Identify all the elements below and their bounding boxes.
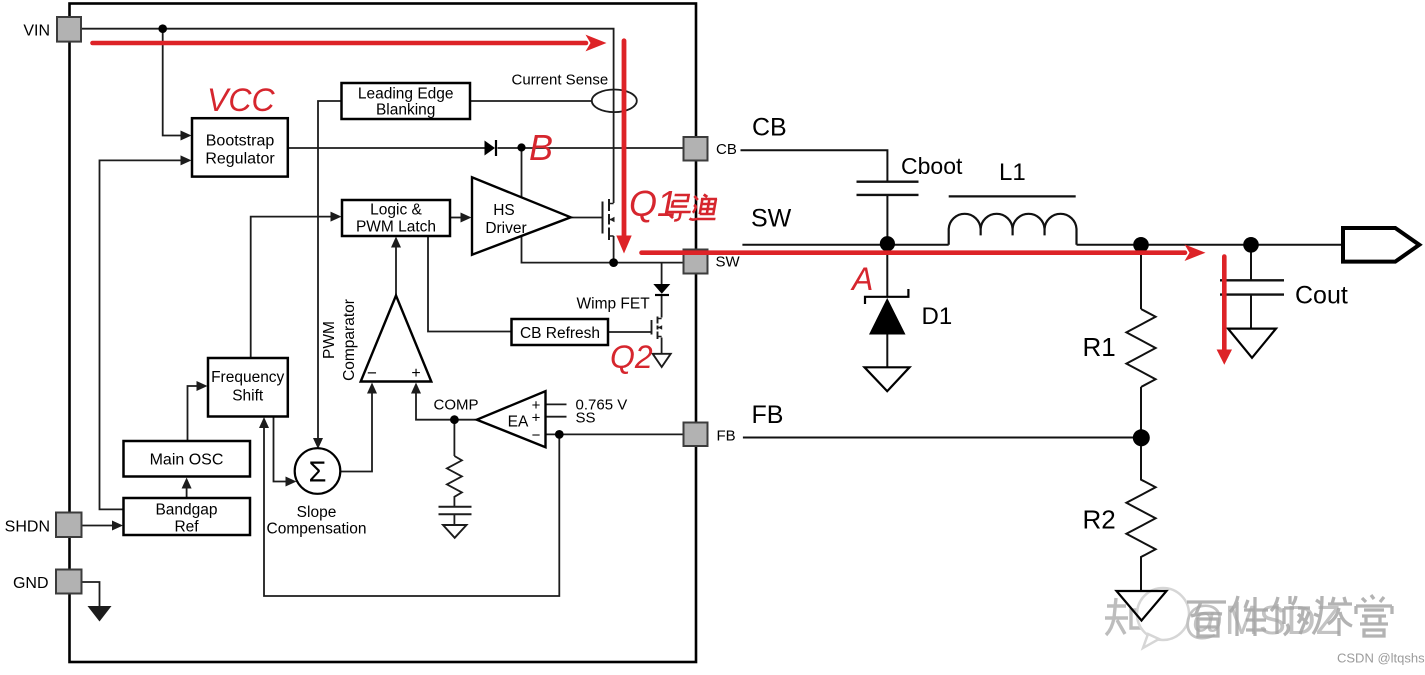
- svg-text:Logic &: Logic &: [370, 202, 422, 219]
- svg-text:Ref: Ref: [174, 519, 199, 536]
- svg-text:−: −: [367, 364, 377, 383]
- arrowhead into Bootstrap input 1: [181, 131, 192, 141]
- wire VCC net: Bandgap to Bootstrap Regulator input 2: [100, 160, 182, 509]
- resistor R2: [1126, 438, 1155, 591]
- svg-text:HS: HS: [493, 202, 515, 219]
- wire SW node down to D1: [886, 244, 888, 297]
- svg-text:R1: R1: [1083, 332, 1116, 362]
- pin SHDN: [56, 513, 82, 538]
- wire Leading Edge Blanking right to current sense ellipse: [470, 100, 592, 102]
- wire Sigma output to PWM Comparator inverting input: [340, 393, 372, 472]
- block Frequency Shift: [208, 358, 288, 417]
- wire PWM Comparator output to Logic PWM Latch: [395, 247, 397, 296]
- capacitor Cboot: [857, 182, 919, 195]
- wire FB pin to divider: [743, 437, 1141, 439]
- watermark glyph tang: [1356, 595, 1392, 636]
- svg-text:Regulator: Regulator: [205, 151, 275, 168]
- wire FB feedback to Frequency Shift bottom: [264, 428, 559, 597]
- svg-text:CB Refresh: CB Refresh: [520, 325, 600, 342]
- node junction VIN tap: [158, 24, 167, 33]
- annotation glyph dao of Q1 annotation: [664, 195, 693, 221]
- svg-text:SHDN: SHDN: [5, 519, 50, 536]
- node SW Cboot junction: [880, 236, 895, 251]
- wire R1 bottom to FB node: [1140, 387, 1142, 438]
- svg-text:SW: SW: [716, 254, 741, 271]
- wire Main OSC to Frequency Shift: [188, 386, 198, 441]
- annotation glyph tong of Q1 annotation: [689, 195, 719, 220]
- svg-text:Compensation: Compensation: [267, 521, 367, 538]
- red arrowhead SW rail: [1185, 244, 1206, 261]
- svg-text:CB: CB: [752, 114, 787, 142]
- wire Cout top: [1250, 245, 1252, 280]
- ground comp network: [443, 525, 467, 538]
- block Bandgap Ref: [124, 498, 251, 535]
- svg-text:PWM Latch: PWM Latch: [356, 219, 436, 236]
- wire Frequency Shift top to Logic PWM Latch input: [251, 217, 331, 358]
- diode wimp FET body: [653, 284, 670, 294]
- svg-text:SS: SS: [576, 410, 596, 427]
- resistor Rcomp: [447, 456, 462, 506]
- arrowhead into Sigma top: [313, 438, 323, 449]
- watermark glyph ying: [1187, 602, 1226, 636]
- svg-text:VCC: VCC: [207, 82, 275, 118]
- svg-text:+: +: [411, 365, 420, 382]
- wire SW to wimp diode, Q2 drain, Q2 source to ground: [661, 263, 663, 354]
- wire L1 to output: [1077, 244, 1343, 246]
- wire CB pin to Cboot: [741, 150, 888, 180]
- pin FB: [684, 423, 708, 447]
- ground under D1: [865, 367, 910, 391]
- wire Cboot to SW node: [886, 196, 888, 244]
- ground arrow at GND pin: [88, 606, 112, 622]
- watermark glyph wei: [1271, 596, 1310, 635]
- svg-text:Shift: Shift: [232, 388, 264, 405]
- svg-text:D1: D1: [922, 303, 953, 330]
- wire Bootstrap output to diode and CB pin: [288, 147, 684, 149]
- wire Logic PWM Latch to HS Driver input: [450, 217, 461, 219]
- svg-text:Main OSC: Main OSC: [150, 452, 224, 469]
- wire Logic PWM Latch bottom to CB Refresh: [428, 236, 512, 332]
- arrowhead into HS Driver: [461, 213, 472, 223]
- arrowhead into Main OSC bottom: [182, 478, 192, 489]
- svg-text:+: +: [532, 410, 541, 427]
- transistor Q2 wimp FET: [652, 317, 662, 340]
- svg-text:VIN: VIN: [23, 23, 50, 40]
- red arrowhead Q1: [616, 236, 631, 254]
- wire Q1 source to SW node: [614, 236, 684, 263]
- red arrowhead VIN rail: [586, 35, 607, 52]
- svg-text:Frequency: Frequency: [211, 369, 284, 386]
- diode bootstrap on CB line: [485, 141, 496, 156]
- diode D1 body: [869, 298, 906, 335]
- arrowhead into PWM Comparator plus: [411, 383, 421, 394]
- capacitor Cout: [1220, 280, 1284, 294]
- red current path arrow down through Cout: [1222, 257, 1227, 351]
- inductor L1: [949, 214, 1077, 245]
- svg-text:L1: L1: [999, 159, 1026, 186]
- wire node B down to SW rail under HS Driver: [522, 148, 614, 263]
- svg-text:Q1: Q1: [629, 183, 677, 224]
- arrowhead into Sigma left: [286, 477, 297, 487]
- block CB Refresh: [512, 319, 609, 345]
- svg-text:A: A: [850, 261, 873, 297]
- op-amp HS Driver triangle: [472, 177, 571, 254]
- wire D1 anode to ground: [886, 335, 888, 367]
- svg-text:Bootstrap: Bootstrap: [206, 133, 275, 150]
- wire EA inverting input to FB pin: [546, 433, 684, 435]
- watermark glyph zhi: [1105, 598, 1145, 635]
- wire Frequency Shift bottom to Sigma left input: [274, 417, 287, 482]
- svg-text:R2: R2: [1083, 505, 1116, 535]
- arrowhead into PWM Comparator minus: [367, 383, 377, 394]
- arrowhead into Bandgap Ref: [112, 521, 123, 531]
- pin VIN: [57, 17, 81, 42]
- wire Cout to ground: [1250, 295, 1252, 328]
- transistor Q1 high side MOSFET: [603, 199, 614, 240]
- svg-text:SW: SW: [751, 205, 792, 233]
- svg-text:Slope: Slope: [297, 504, 337, 521]
- red arrowhead Cout: [1217, 350, 1232, 365]
- wire COMP node to compensation network: [453, 420, 455, 456]
- svg-text:Q2: Q2: [610, 339, 653, 375]
- watermark glyph jiang: [1313, 596, 1352, 636]
- wire CB Refresh to Q2 gate: [608, 331, 652, 333]
- node FB internal junction: [555, 430, 564, 439]
- node FB divider junction: [1133, 429, 1150, 446]
- node COMP junction: [450, 415, 459, 424]
- watermark glyph hu: [1148, 598, 1174, 637]
- svg-text:Σ: Σ: [309, 457, 327, 489]
- svg-text:Current Sense: Current Sense: [512, 72, 609, 89]
- op-amp EA error amplifier triangle: [477, 391, 546, 447]
- wire EA reference input 0.765V: [546, 403, 567, 405]
- red current path arrow SW rail: [642, 250, 1186, 255]
- block Main OSC: [124, 441, 251, 477]
- output port arrow: [1343, 228, 1419, 262]
- svg-text:EA: EA: [508, 414, 529, 431]
- svg-text:GND: GND: [13, 575, 49, 592]
- wire VIN rail to current sense and Q1 drain: [81, 29, 614, 203]
- svg-text:Cout: Cout: [1295, 282, 1348, 310]
- diode D1 schottky cathode bar: [865, 289, 908, 304]
- block Logic & PWM Latch: [342, 200, 450, 236]
- block Bootstrap Regulator: [192, 118, 288, 176]
- svg-text:Wimp FET: Wimp FET: [577, 296, 651, 313]
- arrowhead into Frequency Shift bottom: [259, 417, 269, 428]
- ground under Cout: [1228, 329, 1276, 358]
- IC boundary U1: [70, 4, 697, 663]
- node SW Cout junction: [1243, 237, 1259, 253]
- wire SHDN pin to Bandgap Ref: [82, 525, 113, 527]
- svg-text:Driver: Driver: [485, 220, 526, 237]
- arrowhead into Bootstrap input 2: [181, 155, 192, 165]
- svg-text:FB: FB: [717, 428, 736, 445]
- wire Bandgap Ref to Main OSC: [186, 488, 188, 498]
- inductor L1 top bar: [949, 195, 1076, 197]
- pin GND: [56, 570, 82, 594]
- arrowhead into Frequency Shift left: [197, 381, 208, 391]
- node SW R1 junction: [1133, 237, 1149, 253]
- svg-text:Cboot: Cboot: [901, 153, 963, 179]
- summing node Sigma circle: [295, 448, 341, 494]
- red current path arrow down through Q1: [622, 41, 627, 236]
- svg-text:Bandgap: Bandgap: [155, 502, 217, 519]
- pin CB: [684, 137, 708, 161]
- svg-text:CB: CB: [716, 141, 737, 158]
- svg-text:B: B: [529, 127, 553, 168]
- svg-text:COMP: COMP: [434, 397, 479, 414]
- svg-text:Comparator: Comparator: [341, 299, 358, 381]
- wire SW pin to L1: [742, 244, 948, 246]
- svg-text:Leading Edge: Leading Edge: [358, 86, 454, 103]
- wire R1 top: [1140, 245, 1142, 309]
- wire VIN tap down to Bootstrap Regulator input 1: [163, 29, 181, 136]
- arrowhead into Logic PWM Latch: [331, 212, 342, 222]
- wire EA reference input SS: [546, 416, 567, 418]
- capacitor Ccomp: [439, 507, 472, 514]
- ground under Q2: [653, 354, 671, 367]
- current sense ellipse: [592, 90, 637, 113]
- wire COMP node to PWM Comparator non-inverting input: [416, 393, 477, 420]
- wire Leading Edge Blanking left to Sigma summing input: [318, 101, 342, 439]
- block Leading Edge Blanking: [342, 83, 471, 119]
- red current path arrow VIN rail: [93, 41, 587, 46]
- watermark glyph jian: [1230, 596, 1268, 636]
- ground under R2: [1117, 591, 1167, 621]
- resistor R1: [1126, 309, 1155, 387]
- arrowhead PWM Comparator output into Latch: [391, 237, 401, 248]
- wire HS Driver output to Q1 gate: [571, 217, 603, 219]
- node B junction: [517, 143, 525, 151]
- watermark speech bubble icon: [1137, 588, 1189, 648]
- op-amp PWM Comparator triangle: [361, 296, 432, 382]
- svg-text:FB: FB: [752, 401, 784, 429]
- pin SW: [684, 250, 708, 274]
- wire GND pin to ground arrow: [82, 582, 100, 606]
- svg-text:CSDN @ltqshs: CSDN @ltqshs: [1337, 651, 1425, 666]
- svg-text:Blanking: Blanking: [376, 102, 435, 119]
- svg-text:−: −: [532, 427, 541, 444]
- svg-text:PWM: PWM: [321, 321, 338, 359]
- node SW internal junction: [609, 258, 618, 267]
